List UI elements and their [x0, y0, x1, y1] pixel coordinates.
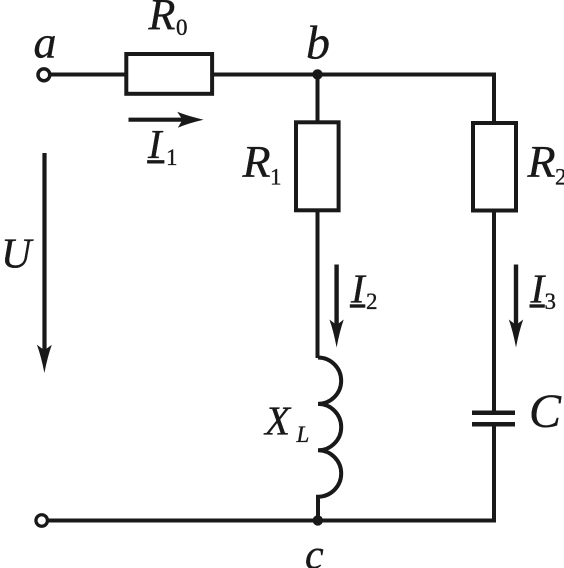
svg-text:2: 2	[555, 165, 564, 190]
resistor R2	[473, 123, 516, 211]
inductor XL (3 arc coil)	[318, 358, 341, 522]
node label a	[34, 17, 57, 68]
node c (junction dot)	[313, 515, 323, 525]
wire: bottom horizontal from terminal to right branch	[48, 519, 496, 523]
svg-text:U: U	[1, 232, 34, 278]
label I1 with underline	[147, 121, 178, 170]
capacitor C top plate	[472, 411, 515, 416]
label I2 with underline	[350, 265, 378, 314]
wire: R2 down to capacitor	[492, 210, 496, 411]
svg-text:1: 1	[270, 165, 282, 190]
wire: R1 to inductor	[316, 210, 320, 358]
arrow U (voltage direction)	[37, 153, 52, 373]
svg-text:C: C	[529, 385, 562, 438]
wire: b down to R1	[316, 75, 320, 123]
resistor R1	[296, 122, 339, 210]
svg-text:L: L	[296, 422, 310, 447]
svg-text:2: 2	[366, 289, 378, 314]
label R1	[242, 136, 282, 189]
node label b	[306, 17, 330, 70]
terminal a (open circle)	[38, 69, 50, 81]
label R0	[148, 0, 188, 40]
svg-text:X: X	[263, 397, 292, 443]
label I3 with underline	[530, 265, 557, 314]
arrow I3 (current direction)	[509, 265, 523, 348]
wire: capacitor down to bottom wire	[492, 426, 496, 521]
label R2	[527, 136, 564, 189]
label C	[529, 385, 562, 438]
svg-text:b: b	[306, 17, 330, 70]
svg-text:R: R	[242, 136, 271, 187]
svg-text:3: 3	[545, 289, 557, 314]
svg-text:1: 1	[166, 145, 178, 170]
svg-text:c: c	[305, 533, 324, 568]
svg-text:a: a	[34, 17, 57, 68]
label U	[1, 232, 34, 278]
capacitor C bottom plate	[472, 422, 515, 427]
wire: top horizontal a to b to right corner	[50, 73, 494, 77]
terminal (bottom-left open circle)	[36, 515, 48, 527]
arrow I2 (current direction)	[329, 265, 343, 348]
svg-text:R: R	[148, 0, 176, 39]
resistor R0	[126, 54, 212, 94]
label XL	[263, 397, 309, 446]
svg-text:0: 0	[176, 15, 188, 40]
wire: right branch vertical down from top corner to R2	[492, 73, 496, 124]
node label c	[305, 533, 324, 568]
node b (junction dot)	[312, 69, 322, 79]
arrow I1 (current direction)	[129, 112, 204, 128]
svg-text:R: R	[527, 136, 556, 187]
